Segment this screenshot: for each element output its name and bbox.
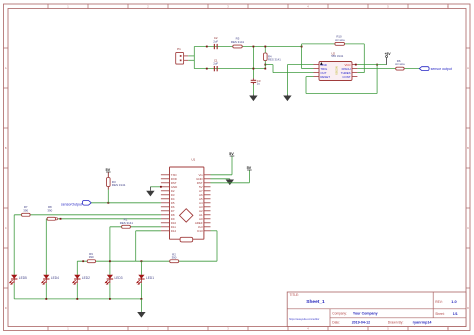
wire GND row y=64.6 to 555	[287, 64, 313, 66]
wire LED resistor row y=261.2	[77, 260, 217, 262]
svg-text:D: D	[5, 306, 7, 310]
svg-text:2019-04-12: 2019-04-12	[352, 320, 370, 324]
node LED3 column	[109, 260, 111, 262]
wire DISCH row to sensor output	[357, 68, 419, 70]
svg-text:B: B	[467, 146, 469, 150]
node top junction	[301, 46, 303, 48]
svg-text:RES 3141: RES 3141	[268, 57, 281, 61]
capacitor C1	[213, 58, 218, 71]
wire rail to ground	[140, 299, 142, 312]
wire D12 row	[136, 231, 161, 261]
node R4 / GND row	[264, 64, 266, 66]
resistor R4	[264, 47, 282, 69]
node at VCC stub	[355, 64, 357, 66]
wire D5 row	[91, 202, 161, 204]
svg-text:2uF: 2uF	[213, 39, 218, 43]
svg-text:390: 390	[172, 256, 177, 260]
node GND left stub	[160, 186, 162, 188]
node at C2 left	[206, 46, 208, 48]
svg-text:Air wire: Air wire	[395, 62, 405, 66]
svg-text:Sheet:: Sheet:	[435, 312, 444, 316]
svg-text:B: B	[5, 146, 7, 150]
wire OUT row jog	[273, 65, 314, 73]
svg-text:5V: 5V	[105, 168, 110, 172]
svg-text:RES 3141: RES 3141	[112, 183, 126, 187]
node at C1 left	[206, 68, 208, 70]
wire RESET loop	[306, 65, 377, 94]
title block	[287, 292, 466, 327]
svg-text:C: C	[467, 226, 469, 230]
resistor below mcu	[180, 237, 193, 242]
node R4 top	[264, 46, 266, 48]
wire C3 branch vertical x=253.4	[252, 47, 254, 79]
wire R4 spur y=64.6	[265, 64, 273, 66]
wire Vin to 5V	[211, 156, 233, 175]
wire top bypass row y=43.9	[302, 44, 365, 73]
svg-text:Your Company: Your Company	[353, 311, 378, 315]
resistor R1	[120, 218, 134, 229]
node RB2 left	[82, 260, 84, 262]
node LED1 column	[141, 260, 143, 262]
wire LED1 drop	[140, 261, 142, 275]
svg-text:LED4: LED4	[51, 276, 59, 280]
svg-text:Company:: Company:	[332, 311, 347, 315]
wire net TOP: P1 to 555 area, y=46.5	[194, 47, 301, 69]
op timer U2 555	[314, 52, 358, 81]
wire cathode rail	[14, 283, 141, 299]
LED LED2	[72, 275, 90, 285]
svg-text:1.0: 1.0	[451, 299, 456, 304]
ground right of mcu	[229, 178, 231, 181]
node R4 / C1 row	[264, 68, 266, 70]
svg-text:ryanrmp14: ryanrmp14	[413, 320, 433, 324]
resistor R2	[170, 252, 179, 262]
ground LED rail	[140, 311, 142, 313]
svg-text:390: 390	[47, 208, 52, 212]
svg-text:A: A	[5, 66, 7, 70]
connector P1	[176, 47, 195, 64]
svg-text:sensorOutput: sensorOutput	[61, 203, 82, 207]
wire D8 row	[14, 215, 161, 275]
power +5V	[385, 52, 392, 64]
LED LED3	[105, 275, 123, 285]
svg-text:Air wire: Air wire	[335, 38, 345, 42]
svg-text:D13: D13	[197, 229, 203, 233]
svg-text:Date:: Date:	[332, 320, 340, 324]
svg-text:TITLE:: TITLE:	[290, 293, 300, 297]
mcu pins U1	[161, 173, 211, 233]
LED LED4	[41, 275, 59, 285]
resistor R3	[107, 172, 126, 203]
svg-text:NE555: NE555	[335, 66, 339, 75]
node C3 top	[253, 46, 255, 48]
LED LED5	[9, 275, 27, 285]
ground near 555	[286, 95, 288, 96]
node D9 row	[60, 218, 62, 220]
svg-text:390: 390	[89, 255, 94, 259]
svg-text:Drawn By:: Drawn By:	[388, 320, 404, 324]
svg-text:D12: D12	[171, 229, 177, 233]
svg-text:A: A	[467, 66, 469, 70]
svg-text:Sheet_1: Sheet_1	[306, 299, 325, 305]
net label sensorOutput	[61, 201, 91, 207]
svg-text:5V: 5V	[247, 166, 252, 170]
wire C1 row y=68.6	[194, 68, 265, 70]
net label sensor output	[419, 67, 452, 71]
svg-text:RES 3141: RES 3141	[231, 40, 245, 44]
wire LED2 drop	[76, 261, 78, 275]
svg-text:LED1: LED1	[146, 276, 154, 280]
wire D9 row	[46, 219, 161, 275]
svg-text:RES 3141: RES 3141	[120, 221, 134, 225]
wire drop to ground x=287.4	[286, 65, 288, 95]
resistor R7	[22, 205, 31, 216]
capacitor C3	[251, 78, 261, 85]
wire TRIG drop x=301.6	[302, 47, 314, 69]
wire GND left	[150, 186, 161, 188]
svg-text:U1: U1	[191, 158, 195, 162]
svg-text:https://easyeda.com/editor: https://easyeda.com/editor	[289, 317, 320, 321]
svg-text:P1: P1	[177, 47, 181, 51]
svg-text:CONT: CONT	[342, 75, 350, 79]
svg-text:LED5: LED5	[19, 276, 27, 280]
resistor R10 (air wire)	[335, 35, 345, 46]
svg-text:5V: 5V	[229, 152, 234, 156]
capacitor C2	[213, 36, 218, 49]
svg-text:1/1: 1/1	[453, 312, 458, 316]
node rail LED1	[141, 298, 143, 300]
wire VCC row to +5V	[357, 64, 386, 66]
resistor R9	[87, 252, 95, 263]
node R3 bottom	[107, 202, 109, 204]
svg-text:390: 390	[23, 208, 28, 212]
mcu U1	[170, 158, 204, 240]
node rail LED2	[76, 298, 78, 300]
LED LED1	[136, 275, 154, 285]
wire D11 row	[110, 227, 161, 275]
svg-text:555 3141: 555 3141	[331, 54, 343, 58]
svg-text:C: C	[5, 226, 7, 230]
svg-text:REV:: REV:	[435, 300, 442, 304]
node rail LED3	[109, 298, 111, 300]
svg-text:LED2: LED2	[82, 276, 90, 280]
mcu diamond logo	[180, 209, 193, 222]
svg-text:RESET: RESET	[320, 75, 330, 79]
wire D13 loop	[211, 231, 218, 261]
node rail LED4	[45, 298, 47, 300]
svg-text:2uF: 2uF	[213, 62, 218, 66]
node VCC / reset loop	[376, 64, 378, 66]
ground left of mcu	[149, 187, 151, 191]
resistor R5	[231, 37, 245, 48]
svg-text:LED3: LED3	[115, 276, 123, 280]
svg-text:D: D	[467, 306, 469, 310]
resistor R8	[47, 205, 56, 220]
svg-text:1u: 1u	[257, 82, 261, 86]
svg-text:sensor output: sensor output	[431, 67, 452, 71]
wire GND right	[211, 178, 230, 180]
node C3 / C1 row	[253, 68, 255, 70]
wire C3 to ground	[252, 84, 254, 94]
ground below C3	[252, 95, 254, 96]
wire RST to 5V	[211, 170, 250, 183]
resistor R6 (air wire)	[395, 59, 405, 70]
